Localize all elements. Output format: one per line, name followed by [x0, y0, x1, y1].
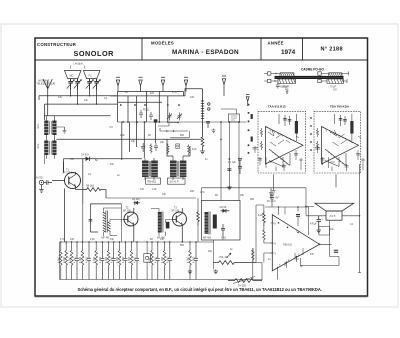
wire U1 out: [298, 220, 339, 265]
resistors inside IC1: [260, 128, 262, 150]
svg-text:L=6.8μH: L=6.8μH: [74, 63, 83, 66]
svg-text:FD 11: FD 11: [143, 109, 150, 112]
svg-text:0,47μF: 0,47μF: [281, 86, 289, 89]
svg-text:4,7kΩ: 4,7kΩ: [161, 256, 164, 263]
part label box SO41P: [168, 178, 186, 184]
capacitor Cb5: [124, 242, 128, 280]
wire IC2 output to speaker: [358, 164, 361, 273]
ground bottom 1: [188, 270, 192, 274]
svg-text:220: 220: [150, 92, 155, 95]
IF transformer MF1 FM: [37, 116, 67, 138]
wire mid vertical: [83, 159, 106, 204]
svg-text:N° 2188: N° 2188: [321, 47, 343, 53]
capacitor C12: [141, 143, 145, 152]
svg-text:2,2k: 2,2k: [120, 134, 125, 137]
svg-text:VOL 10k: VOL 10k: [219, 256, 229, 259]
resistor Rb11: [189, 242, 192, 280]
diode D2 AM: [131, 198, 143, 205]
wire rail top: [39, 95, 118, 97]
IF transformer MF3: [142, 158, 158, 180]
resistor Rb2: [65, 242, 68, 280]
resistor R2 input U1: [263, 228, 273, 243]
variable capacitor CV1 FM section: [65, 71, 82, 90]
svg-text:33p: 33p: [110, 238, 115, 241]
svg-text:4,7k: 4,7k: [172, 91, 177, 94]
capacitor C boot: [296, 215, 300, 217]
svg-text:BF 195: BF 195: [172, 209, 180, 212]
resistor Rb6: [107, 242, 110, 280]
texture IC2: [331, 130, 362, 146]
svg-text:GO: GO: [333, 89, 337, 92]
svg-text:4,7kΩ: 4,7kΩ: [99, 256, 102, 263]
IF transformer MF2 FM: [37, 135, 57, 159]
svg-text:33p: 33p: [131, 140, 136, 143]
driver triangle IC1: [269, 149, 290, 171]
texture IC1: [268, 130, 299, 146]
svg-text:MF1: MF1: [37, 123, 40, 128]
capacitor C in: [257, 252, 261, 263]
svg-text:4,7k: 4,7k: [60, 238, 65, 241]
ceramic filter CF1: [144, 242, 151, 280]
detector module box: [202, 201, 241, 241]
svg-text:4,7kΩ: 4,7kΩ: [134, 256, 137, 263]
svg-text:4,7k: 4,7k: [200, 191, 205, 194]
svg-text:100: 100: [70, 238, 75, 241]
svg-text:BF 195: BF 195: [123, 209, 131, 212]
resistor R7 vertical: [197, 210, 200, 226]
ground under R8: [200, 149, 204, 154]
svg-text:560: 560: [180, 244, 185, 247]
IC2 dashed box TBA790: [314, 105, 365, 188]
wire cap drops: [39, 90, 97, 121]
svg-text:Schéma général du récepteur co: Schéma général du récepteur comportant, …: [78, 287, 322, 292]
supply node 9V: [267, 193, 276, 204]
capacitor C cadre: [276, 83, 289, 94]
svg-text:TELESCOPIQUE: TELESCOPIQUE: [37, 82, 56, 85]
svg-text:4,7kΩ: 4,7kΩ: [74, 256, 77, 263]
alignment arrow TP5: [222, 76, 226, 96]
svg-text:4,7kΩ: 4,7kΩ: [167, 256, 170, 263]
shielded module M1: [221, 109, 240, 122]
svg-text:560: 560: [180, 134, 185, 137]
thermistor TH: [228, 277, 262, 288]
svg-text:TH 350: TH 350: [238, 285, 247, 288]
transistor T1: [52, 169, 81, 190]
wire vertical right of osc: [83, 204, 122, 242]
bottom rail top: [60, 241, 214, 243]
svg-text:100: 100: [190, 96, 195, 99]
volume pot R vol: [213, 253, 256, 264]
bottom rail gnd: [60, 279, 263, 281]
ground detector: [214, 236, 223, 270]
svg-text:R6 1kΩ: R6 1kΩ: [86, 185, 94, 188]
svg-text:4,7kΩ: 4,7kΩ: [58, 256, 61, 263]
junction dots bank: [60, 241, 197, 242]
FM tuner module wiring: [111, 89, 203, 122]
svg-text:10n: 10n: [330, 228, 335, 231]
capacitor Cb9: [194, 242, 198, 280]
svg-text:3 Ω 5: 3 Ω 5: [330, 215, 336, 218]
svg-text:OA 90: OA 90: [220, 206, 227, 209]
oscillator coil L2: [201, 89, 216, 135]
capacitor Cb1: [75, 242, 79, 280]
svg-text:10n: 10n: [110, 163, 115, 166]
trimmer capacitor CT1: [167, 113, 172, 121]
resistor Rb5: [95, 242, 98, 280]
junction dots: [47, 95, 97, 105]
middle coupling wires: [122, 119, 190, 160]
svg-text:4,7kΩ: 4,7kΩ: [128, 256, 131, 263]
svg-text:2 x 1μF: 2 x 1μF: [228, 161, 237, 164]
resistor Rb4: [81, 242, 84, 280]
alignment arrow TP3: [161, 77, 165, 91]
svg-text:MODÈLES: MODÈLES: [151, 41, 174, 46]
wire rail 3: [45, 115, 111, 117]
svg-text:4,7kΩ: 4,7kΩ: [93, 256, 96, 263]
resistors inside IC2: [316, 128, 318, 150]
cadre coil PO: [278, 73, 296, 92]
title block divider 2: [260, 38, 262, 60]
svg-text:MF 481: MF 481: [102, 237, 111, 240]
wire T1 collector to rail: [63, 162, 65, 173]
ground bottom 2: [214, 270, 218, 274]
svg-text:2,2k: 2,2k: [90, 238, 95, 241]
resistor Rb1: [60, 242, 63, 280]
svg-text:4,7kΩ: 4,7kΩ: [86, 256, 89, 263]
svg-text:4,7kΩ: 4,7kΩ: [105, 256, 108, 263]
resistor R12: [150, 144, 152, 154]
title block separator: [35, 59, 368, 61]
svg-text:8,2k: 8,2k: [192, 148, 197, 151]
svg-text:4,7kΩ: 4,7kΩ: [79, 256, 82, 263]
svg-text:220: 220: [190, 190, 195, 193]
resistor R14: [188, 145, 190, 156]
svg-text:TBA 611: TBA 611: [283, 244, 293, 247]
svg-text:33p: 33p: [162, 193, 167, 196]
svg-text:8,2k: 8,2k: [258, 214, 263, 217]
svg-text:- TBA 790 KDA -: - TBA 790 KDA -: [328, 105, 351, 109]
svg-text:CV: CV: [110, 126, 114, 129]
IC2 supply drop: [335, 174, 337, 187]
IF transformer MF4: [167, 139, 190, 180]
svg-text:- TAA 611 B12 -: - TAA 611 B12 -: [266, 105, 288, 109]
antenna A1 telescopic: [37, 79, 56, 116]
wire long vertical left: [64, 189, 66, 243]
svg-text:AA 119: AA 119: [132, 198, 140, 201]
svg-text:10n: 10n: [84, 99, 89, 102]
svg-text:FC: FC: [89, 75, 92, 78]
oscillator transformer L3: [89, 204, 123, 240]
svg-text:AUTO: AUTO: [36, 177, 43, 180]
svg-text:9V (BU): 9V (BU): [267, 200, 276, 203]
svg-text:CAG: CAG: [221, 237, 226, 240]
ground mid: [227, 185, 231, 190]
output capacitor C out: [310, 216, 329, 235]
op-amp triangle IC2: [322, 127, 359, 165]
svg-text:CONSTRUCTEUR: CONSTRUCTEUR: [37, 42, 77, 47]
capacitor C tuner 1: [139, 110, 143, 118]
alignment arrow TP1: [116, 77, 120, 91]
svg-text:2,2k: 2,2k: [152, 188, 157, 191]
label L 6-68pF: [70, 63, 85, 69]
svg-text:MF 483: MF 483: [203, 237, 212, 240]
capacitor C mid: [227, 169, 231, 171]
power amp IC U1 triangle: [271, 207, 320, 271]
resistor R1 emitter: [76, 185, 107, 192]
cadre coil GO: [327, 73, 344, 92]
svg-text:MARINA - ESPADON: MARINA - ESPADON: [172, 49, 239, 56]
wires region G verticals: [221, 122, 239, 201]
car antenna jack J1: [36, 177, 52, 185]
supply rail mid: [202, 188, 307, 201]
diode D3: [221, 210, 230, 212]
title block divider 3: [302, 38, 304, 60]
transistor T2: [123, 207, 138, 243]
svg-text:4,7kΩ: 4,7kΩ: [68, 256, 71, 263]
resistor Rb9: [151, 242, 154, 280]
capacitor Cb3: [101, 242, 105, 280]
title block divider 1: [141, 38, 143, 60]
alignment arrow TP4: [184, 77, 188, 91]
svg-text:100: 100: [140, 188, 145, 191]
cadre terminals left: [264, 72, 280, 83]
wire tuner bottom row: [118, 121, 247, 123]
svg-text:220: 220: [208, 250, 213, 253]
transistor T3: [172, 207, 187, 243]
capacitor Cb8: [168, 242, 172, 280]
IC1 supply drop: [271, 174, 275, 192]
svg-text:470μF: 470μF: [310, 223, 317, 226]
svg-text:9V: 9V: [276, 197, 279, 200]
driver triangle IC2: [325, 149, 346, 171]
resistor R feedback: [252, 248, 255, 263]
wire bus over transistors: [106, 198, 198, 242]
capacitor C13: [154, 143, 158, 151]
svg-text:4,7kΩ: 4,7kΩ: [116, 256, 119, 263]
svg-text:AF 239 S: AF 239 S: [63, 171, 73, 174]
ceramic filter CF2: [176, 144, 180, 149]
IC pin column: [248, 104, 253, 154]
svg-text:4,7kΩ: 4,7kΩ: [63, 256, 66, 263]
svg-text:4,7kΩ: 4,7kΩ: [193, 256, 196, 263]
IF transformer MF5: [151, 209, 173, 240]
resistor Rb8: [130, 242, 133, 280]
diode D1 detector: [81, 154, 90, 162]
wire rail 2: [45, 103, 118, 105]
IC2 pin column: [310, 117, 312, 151]
svg-text:SO 41 P: SO 41 P: [170, 181, 179, 184]
capacitor C det: [221, 224, 225, 236]
border frame: [35, 38, 368, 296]
resistor R input U1: [263, 211, 266, 227]
op-amp triangle IC1: [266, 127, 304, 165]
part label box TBA651: [146, 178, 161, 184]
supply 9V to U1: [270, 194, 279, 207]
svg-text:PO: PO: [285, 89, 289, 92]
cadre ferrite rod: [275, 77, 344, 79]
svg-text:OA 81Y: OA 81Y: [81, 154, 90, 157]
alignment arrow TP2: [139, 77, 143, 91]
wire input network: [256, 205, 272, 263]
resistor Rb3: [70, 242, 73, 280]
tuner pin dots: [120, 104, 180, 106]
svg-text:1974: 1974: [281, 49, 296, 56]
svg-text:4,7kΩ: 4,7kΩ: [187, 256, 190, 263]
caps top IC2: [350, 121, 353, 134]
resistor R8 vertical at 202: [201, 135, 204, 149]
wire speaker net: [306, 188, 360, 216]
resistor Rb10: [163, 242, 166, 280]
resistor Rb7: [118, 242, 121, 280]
wire U1 pin drops: [277, 254, 300, 280]
IC1 dashed box TAA611: [253, 105, 306, 199]
wire FM IF rail: [57, 138, 202, 140]
svg-text:SONOLOR: SONOLOR: [74, 49, 115, 58]
variable capacitor CV2 AM section: [83, 71, 100, 90]
trimmer capacitor CT2: [177, 113, 182, 121]
capacitor Cb7: [156, 242, 160, 280]
capacitor Cb6: [135, 242, 139, 280]
svg-text:TBA 651: TBA 651: [147, 181, 157, 184]
capacitor Cb2: [87, 242, 91, 280]
speaker LS: [315, 203, 354, 220]
wire U1 top rail: [265, 207, 309, 235]
svg-text:MC: MC: [70, 75, 74, 78]
cadre terminals right: [318, 72, 349, 84]
resistor R13: [167, 144, 169, 155]
svg-text:ANNÉE: ANNÉE: [268, 41, 284, 46]
wire detector rail: [64, 159, 143, 173]
capacitor C tuner 2: [149, 112, 153, 120]
label 2x1uF: [228, 159, 242, 175]
svg-text:4,7kΩ: 4,7kΩ: [122, 256, 125, 263]
ground jack: [39, 185, 43, 193]
capacitor Cb4: [112, 242, 116, 280]
ground under C out: [317, 229, 322, 233]
node dot: [220, 139, 230, 160]
junction dots tuner bottom: [122, 121, 240, 123]
caps top IC1: [295, 121, 298, 134]
svg-text:4,7kΩ: 4,7kΩ: [110, 256, 113, 263]
alignment arrow TP6: [246, 95, 249, 107]
svg-text:560: 560: [250, 198, 255, 201]
svg-text:MF2: MF2: [37, 143, 40, 148]
wire rail drops: [45, 155, 263, 280]
svg-text:CADRE PO-GO: CADRE PO-GO: [301, 68, 324, 72]
svg-text:4,7kΩ: 4,7kΩ: [155, 256, 158, 263]
